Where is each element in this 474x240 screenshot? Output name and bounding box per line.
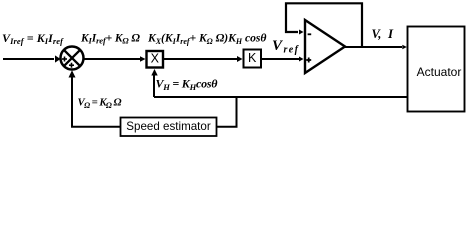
svg-text:Actuator: Actuator bbox=[417, 65, 462, 79]
svg-text:Speed estimator: Speed estimator bbox=[126, 120, 211, 133]
svg-text:VIref = KIIref: VIref = KIIref bbox=[2, 31, 64, 46]
svg-text:VH = KHcosθ: VH = KHcosθ bbox=[156, 77, 219, 92]
svg-text:X: X bbox=[151, 52, 160, 66]
svg-text:KIIref+ KΩ Ω: KIIref+ KΩ Ω bbox=[80, 33, 140, 46]
svg-text:KX(KIIref+ KΩ Ω)KH cosθ: KX(KIIref+ KΩ Ω)KH cosθ bbox=[147, 32, 267, 46]
svg-text:Vref: Vref bbox=[272, 38, 300, 55]
svg-text:VΩ = KΩ Ω: VΩ = KΩ Ω bbox=[78, 97, 122, 110]
svg-text:I: I bbox=[387, 26, 394, 41]
svg-text:K: K bbox=[248, 51, 257, 65]
svg-text:V,: V, bbox=[372, 27, 382, 41]
